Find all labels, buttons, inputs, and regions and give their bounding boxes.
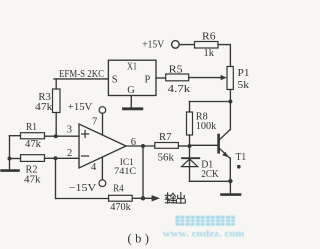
- pin 3 wire: [56, 135, 80, 137]
- node junction R7/R8/D1/base: [188, 144, 192, 148]
- wire R4 right: [132, 197, 143, 199]
- wire emitter down: [229, 158, 231, 181]
- wire R5 to P1 wiper: [189, 77, 221, 79]
- svg-text:2: 2: [67, 148, 72, 159]
- resistor R2: [21, 155, 45, 162]
- node junction emitter/D1: [228, 179, 232, 183]
- svg-text:741C: 741C: [114, 167, 136, 177]
- resistor R8: [187, 112, 193, 135]
- node junction R4/output: [141, 196, 145, 200]
- svg-text:+15V: +15V: [68, 101, 93, 113]
- svg-text:6: 6: [131, 137, 136, 148]
- wire base of transistor: [190, 144, 218, 146]
- potentiometer P1: [227, 67, 233, 90]
- ground left: [2, 169, 19, 172]
- svg-text:S: S: [112, 74, 118, 85]
- node junction P1/R8: [228, 100, 232, 104]
- wire output pin 6: [126, 145, 155, 147]
- svg-text:47k: 47k: [35, 102, 53, 113]
- node junction R1/R2/ground: [8, 157, 12, 161]
- wire R1 left: [10, 135, 21, 137]
- wire R7 right: [178, 145, 189, 147]
- ground below X1: [124, 107, 142, 110]
- wire emitter node to ground: [229, 181, 231, 193]
- node junction output/feedback: [141, 144, 145, 148]
- svg-text:(b): (b): [128, 232, 153, 246]
- wire R2 left: [10, 158, 21, 160]
- wire D1 bottom stem: [189, 167, 191, 182]
- svg-text:P: P: [145, 74, 151, 85]
- svg-text:56k: 56k: [158, 152, 175, 163]
- wire R8 top stem: [189, 102, 191, 113]
- svg-text:470k: 470k: [110, 202, 131, 213]
- svg-text:G: G: [127, 85, 135, 96]
- ground right: [222, 193, 241, 196]
- svg-text:+15V: +15V: [142, 39, 164, 51]
- pin 2 wire: [56, 157, 80, 159]
- wire X1 pin G to ground: [130, 96, 132, 108]
- terminal -15V circle (pin 4): [99, 180, 106, 187]
- wire P1 bottom to collector: [229, 90, 231, 130]
- op-amp U1 triangle: [79, 124, 126, 168]
- terminal +15V circle (pin 7): [99, 107, 106, 114]
- svg-text:T1: T1: [236, 152, 247, 163]
- wire left vertical R1 to ground: [9, 136, 11, 170]
- svg-text:R7: R7: [159, 132, 172, 143]
- wire R1 right: [45, 135, 56, 137]
- svg-text:www. cndzz. com: www. cndzz. com: [163, 230, 245, 240]
- svg-text:P1: P1: [238, 68, 250, 79]
- wire R8 bottom stem: [189, 135, 191, 146]
- resistor R4: [109, 195, 133, 201]
- wire R3 bottom to node pin3: [55, 113, 57, 137]
- resistor R7: [155, 143, 179, 149]
- transistor T1: [219, 130, 231, 159]
- node junction R2 feedback pin2: [54, 156, 58, 160]
- resistor R5: [166, 74, 189, 81]
- svg-text:−15V: −15V: [69, 182, 97, 194]
- svg-text:X1: X1: [127, 62, 137, 73]
- resistor R1: [21, 133, 45, 139]
- label output (Chinese): [165, 193, 185, 204]
- svg-text:4.7k: 4.7k: [168, 84, 191, 95]
- svg-text:EFM-S 2KC: EFM-S 2KC: [59, 68, 104, 80]
- wire D1 to emitter node: [190, 180, 231, 182]
- svg-text:R5: R5: [169, 64, 183, 75]
- node junction R1 R3 pin3: [54, 134, 58, 138]
- resistor R3: [53, 89, 61, 113]
- wire R6 right and corner down to P1: [218, 45, 230, 67]
- terminal +15V circle top right: [172, 41, 180, 49]
- output arrowhead: [152, 195, 160, 201]
- plus input marking: [82, 131, 89, 138]
- svg-text:R4: R4: [113, 184, 124, 195]
- svg-text:47k: 47k: [25, 139, 42, 150]
- wire feedback vertical: [142, 146, 144, 198]
- transducer X1 box: [108, 60, 156, 95]
- asterisk mark below T1: [237, 165, 241, 169]
- wire R2 right: [45, 157, 56, 159]
- watermark site name: [163, 216, 245, 240]
- svg-text:100k: 100k: [196, 121, 217, 132]
- wire +15V to R6: [179, 44, 194, 46]
- wire EFM-S signal line to X1 pin S: [54, 78, 108, 80]
- wire output stub: [143, 197, 152, 199]
- svg-text:2CK: 2CK: [201, 169, 219, 180]
- svg-text:7: 7: [92, 116, 97, 127]
- svg-text:1k: 1k: [204, 48, 215, 59]
- svg-text:47k: 47k: [24, 175, 41, 186]
- svg-text:3: 3: [67, 124, 72, 135]
- svg-text:4: 4: [91, 162, 97, 173]
- wire R8 branch horizontal: [190, 101, 231, 103]
- wire bottom feedback horizontal: [56, 198, 109, 200]
- svg-text:R6: R6: [202, 31, 216, 42]
- diode D1 top stem: [189, 146, 191, 167]
- pin 4 wire: [101, 157, 103, 180]
- diode D1: [182, 158, 200, 166]
- minus input marking: [82, 155, 89, 157]
- wire X1 pin P to R5: [156, 77, 166, 79]
- svg-text:5k: 5k: [238, 80, 250, 91]
- resistor R6: [195, 42, 219, 49]
- wire R3 top stem: [55, 79, 57, 89]
- wire feedback bottom vertical from pin2 node: [55, 158, 57, 198]
- wiper arrowhead into P1: [221, 75, 227, 80]
- svg-text:R1: R1: [26, 122, 37, 133]
- wire pin 7: [102, 113, 104, 134]
